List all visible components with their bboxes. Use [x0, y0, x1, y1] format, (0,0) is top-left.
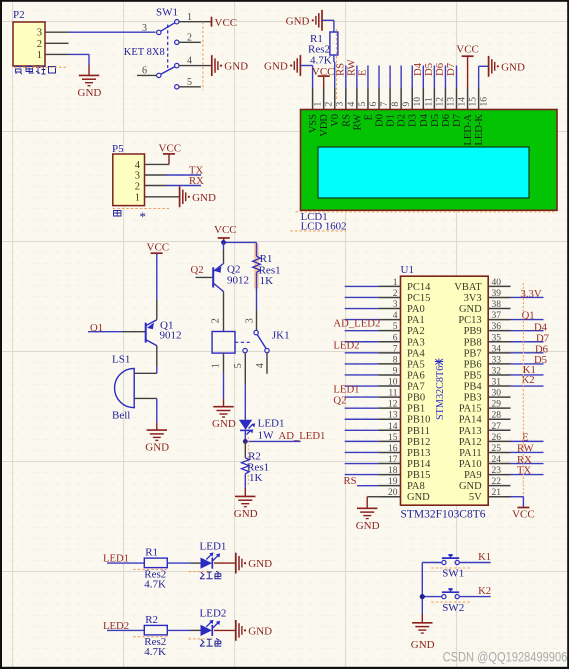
- SW1 pin 3 contact: [157, 30, 161, 34]
- wire LED2 to GND: [214, 629, 236, 631]
- svg-text:GND: GND: [145, 442, 169, 454]
- buzzer LS1 Bell symbol: [115, 368, 135, 407]
- wire GND to LCD pin1: [300, 65, 312, 67]
- svg-text:PB1: PB1: [407, 404, 425, 415]
- wire SW1 pin2 stub: [179, 41, 201, 43]
- svg-text:GND: GND: [212, 418, 236, 430]
- svg-text:PA4: PA4: [407, 348, 425, 359]
- svg-text:GND: GND: [501, 61, 525, 73]
- compile-error mark at R2 Res1: [247, 437, 249, 485]
- SW1 pin 2 contact: [175, 40, 179, 44]
- svg-text:12: 12: [388, 400, 398, 410]
- svg-text:PB12: PB12: [407, 437, 430, 448]
- svg-text:GND: GND: [411, 639, 435, 651]
- svg-text:KET 8X8: KET 8X8: [124, 47, 165, 58]
- svg-text:23: 23: [492, 466, 502, 476]
- svg-text:*: *: [140, 209, 147, 224]
- wire junction to R2: [244, 441, 246, 457]
- LED1 comment red color (Chinese): [200, 572, 213, 579]
- relay pin 5 line: [244, 353, 246, 385]
- svg-text:PB4: PB4: [464, 382, 483, 393]
- svg-text:PA15: PA15: [459, 404, 482, 415]
- wire P2 pin1 to GND: [69, 53, 90, 55]
- svg-text:4.7K: 4.7K: [310, 55, 332, 67]
- svg-text:4: 4: [255, 363, 266, 368]
- wires LCD data/control pins: [345, 66, 347, 89]
- svg-text:SW1: SW1: [442, 568, 464, 580]
- svg-text:5V: 5V: [469, 492, 482, 503]
- svg-text:3: 3: [393, 300, 398, 310]
- svg-text:9012: 9012: [160, 329, 182, 341]
- wire VCC to junction: [223, 238, 225, 242]
- svg-text:27: 27: [492, 422, 502, 432]
- svg-text:PA11: PA11: [459, 448, 482, 459]
- svg-text:GND: GND: [286, 15, 310, 27]
- svg-text:LED-K: LED-K: [474, 114, 485, 146]
- svg-text:38: 38: [492, 300, 502, 310]
- compile-error vertical mark near SW1: [202, 22, 204, 91]
- switch SW1 pushbutton: [442, 560, 446, 564]
- svg-text:PA9: PA9: [464, 470, 482, 481]
- svg-text:39: 39: [492, 289, 502, 299]
- svg-text:10: 10: [388, 378, 398, 388]
- LS1 pin 1: [134, 372, 157, 374]
- svg-text:36: 36: [492, 322, 502, 332]
- IC U1 STM32F103C8T6 body: [401, 276, 489, 505]
- svg-text:PA5: PA5: [407, 359, 425, 370]
- svg-text:D3: D3: [408, 114, 419, 127]
- LED LED1 symbol: [201, 558, 213, 569]
- svg-text:28: 28: [492, 411, 502, 421]
- svg-text:9: 9: [402, 102, 412, 107]
- svg-text:4.7K: 4.7K: [144, 579, 166, 591]
- compile-error underline below LCD designator: [291, 230, 347, 232]
- svg-text:SW2: SW2: [442, 602, 464, 614]
- LCD pin lines: [312, 88, 314, 110]
- svg-text:PB10: PB10: [407, 415, 430, 426]
- svg-text:16: 16: [480, 97, 490, 107]
- svg-text:LED-A: LED-A: [463, 114, 474, 146]
- wire SW1 pin4 to GND: [179, 65, 212, 67]
- svg-text:2: 2: [393, 289, 398, 299]
- svg-text:PA2: PA2: [407, 326, 425, 337]
- svg-text:PC13: PC13: [458, 315, 481, 326]
- svg-text:PA12: PA12: [459, 437, 482, 448]
- wire GND to R1: [322, 19, 334, 21]
- svg-text:3V3: 3V3: [464, 293, 482, 304]
- wire LED1 to GND: [214, 562, 236, 564]
- U1 right wires: [511, 296, 544, 298]
- svg-text:JK1: JK1: [272, 330, 290, 342]
- net label AD_LED1 and wire: [245, 440, 300, 442]
- wire SW1 pin1 to VCC: [179, 21, 212, 23]
- wire LED1 to R1: [107, 562, 144, 564]
- svg-text:AD_LED2: AD_LED2: [333, 317, 380, 329]
- svg-text:1K: 1K: [260, 275, 274, 287]
- svg-text:VCC: VCC: [147, 242, 170, 254]
- power VCC at SW1 pin1: [211, 17, 213, 27]
- relay JK1 coil pin 2: [223, 311, 225, 332]
- svg-text:VCC: VCC: [456, 43, 479, 55]
- svg-text:GND: GND: [234, 508, 258, 520]
- wire LS1 pin2 to GND: [156, 398, 158, 423]
- relay JK1 contact pin 3: [256, 310, 258, 330]
- wire base Q1: [88, 331, 122, 333]
- svg-text:VCC: VCC: [512, 509, 535, 521]
- SW1 gang dashed link: [167, 25, 169, 69]
- svg-text:2: 2: [135, 181, 140, 192]
- svg-text:PA8: PA8: [407, 481, 425, 492]
- svg-text:PB3: PB3: [464, 393, 482, 404]
- SW1 arm pin3-pin1: [161, 23, 175, 32]
- junction node VCC/Q2/R1: [224, 241, 257, 243]
- svg-text:PA1: PA1: [407, 315, 425, 326]
- svg-text:8: 8: [393, 355, 398, 365]
- wire U1 pin21 5V to VCC: [511, 496, 524, 498]
- SW1 pin 5 contact: [175, 85, 179, 89]
- svg-text:1: 1: [211, 363, 222, 368]
- svg-text:D0: D0: [375, 114, 386, 127]
- svg-text:35: 35: [492, 333, 502, 343]
- power VCC at P5 pin4: [163, 153, 175, 155]
- svg-text:3: 3: [244, 318, 255, 323]
- svg-text:GND: GND: [248, 625, 272, 637]
- svg-text:17: 17: [388, 455, 398, 465]
- svg-text:14: 14: [388, 422, 398, 432]
- svg-text:8: 8: [391, 102, 401, 107]
- svg-text:VCC: VCC: [159, 143, 182, 155]
- svg-text:RS: RS: [344, 475, 357, 487]
- resistor R1 Res2 4.7K body: [144, 558, 167, 568]
- relay pin 4 line: [266, 353, 268, 374]
- LED D-LED1 1W symbol: [239, 420, 252, 430]
- svg-text:PB14: PB14: [407, 459, 431, 470]
- svg-text:1W: 1W: [258, 430, 275, 442]
- ground for P2 pin 1: [79, 74, 99, 76]
- svg-text:30: 30: [492, 389, 502, 399]
- svg-text:PB0: PB0: [407, 393, 425, 404]
- resistor R2 Res1 1K zigzag: [242, 458, 250, 474]
- svg-text:D4: D4: [419, 113, 430, 127]
- svg-text:D2: D2: [397, 114, 408, 127]
- svg-text:GND: GND: [248, 558, 272, 570]
- transistor Q2 9012 PNP: [212, 267, 214, 287]
- svg-text:K2: K2: [478, 585, 491, 597]
- svg-text:10: 10: [413, 97, 423, 107]
- svg-text:4: 4: [347, 102, 357, 107]
- svg-text:15: 15: [388, 433, 398, 443]
- svg-text:SW1: SW1: [156, 7, 178, 19]
- svg-text:37: 37: [492, 311, 502, 321]
- U1 left pin lines and numbers: [378, 285, 400, 287]
- svg-text:15: 15: [469, 97, 479, 107]
- svg-text:PA10: PA10: [459, 459, 482, 470]
- LED1 emission arrows: [206, 555, 218, 561]
- svg-text:R1: R1: [145, 547, 158, 559]
- svg-text:PB6: PB6: [464, 359, 482, 370]
- compile-error vertical mark right of U1: [522, 283, 524, 508]
- P5 hidden comment (Chinese) with error underline: [114, 211, 122, 217]
- svg-text:U1: U1: [401, 264, 414, 276]
- svg-text:Bell: Bell: [112, 410, 130, 422]
- LS1 pin 2: [134, 397, 157, 399]
- svg-text:P5: P5: [112, 143, 124, 155]
- svg-text:LED2: LED2: [333, 339, 359, 351]
- svg-text:25: 25: [492, 444, 502, 454]
- svg-text:5: 5: [233, 363, 244, 368]
- svg-text:26: 26: [492, 433, 502, 443]
- wire SW1 pin6 stub: [137, 74, 157, 76]
- svg-text:PA0: PA0: [407, 304, 425, 315]
- svg-text:LED1: LED1: [258, 417, 285, 429]
- svg-text:RW: RW: [517, 443, 535, 455]
- svg-text:Q2: Q2: [191, 264, 204, 276]
- svg-text:PA7: PA7: [407, 382, 425, 393]
- svg-text:20: 20: [388, 488, 398, 498]
- svg-text:PC14: PC14: [407, 282, 431, 293]
- svg-text:5: 5: [358, 102, 368, 107]
- svg-text:21: 21: [492, 488, 502, 498]
- svg-text:1: 1: [314, 102, 324, 107]
- svg-text:16: 16: [388, 444, 398, 454]
- relay JK1 contact pin 4 circle: [265, 348, 269, 352]
- compile-error underline at R1: [133, 568, 168, 570]
- SW1 pin 4 contact: [175, 63, 179, 67]
- svg-text:1: 1: [135, 193, 140, 204]
- svg-text:3: 3: [336, 102, 346, 107]
- compile-error vertical mark at R1: [336, 29, 338, 100]
- resistor R1 Res2 4.7K body: [330, 32, 338, 55]
- svg-text:GND: GND: [459, 304, 482, 315]
- svg-text:TX: TX: [517, 465, 532, 477]
- svg-text:6: 6: [369, 102, 379, 107]
- svg-text:2: 2: [325, 102, 335, 107]
- svg-text:GND: GND: [224, 61, 248, 73]
- svg-text:LED1: LED1: [200, 540, 227, 552]
- compile-error underline at SW1: [431, 567, 470, 569]
- svg-text:9: 9: [393, 366, 398, 376]
- compile-error underline below LCD body: [296, 211, 558, 213]
- svg-text:GND: GND: [78, 87, 102, 99]
- svg-text:4: 4: [393, 311, 398, 321]
- svg-text:PA14: PA14: [459, 415, 483, 426]
- svg-text:32: 32: [492, 366, 502, 376]
- svg-text:STM32F103C8T6: STM32F103C8T6: [401, 509, 486, 521]
- svg-text:PB9: PB9: [464, 326, 482, 337]
- wire SW1 left: [422, 562, 442, 564]
- wire R2 to GND: [244, 474, 246, 488]
- svg-text:13: 13: [446, 97, 456, 107]
- ground at LCD pin1 VSS: [299, 55, 301, 76]
- svg-text:K1: K1: [478, 551, 491, 563]
- svg-text:GND: GND: [459, 481, 482, 492]
- wire R1 Res1 to relay pin3: [256, 272, 258, 310]
- wire U1 pin20 GND: [367, 496, 378, 498]
- power VCC under U1 pin21: [517, 507, 529, 509]
- resistor R2 Res2 4.7K body: [144, 625, 167, 635]
- ground at LED1: [235, 553, 237, 574]
- svg-text:1: 1: [37, 50, 42, 61]
- svg-text:22: 22: [492, 477, 502, 487]
- U1 left wires: [345, 285, 379, 287]
- svg-text:PA3: PA3: [407, 337, 425, 348]
- wire R1 to LED1: [167, 562, 190, 564]
- resistor R1 Res1 1K zigzag: [253, 256, 261, 272]
- LCD1 screen area: [318, 147, 529, 198]
- svg-text:P2: P2: [13, 9, 25, 21]
- SW1 pin 6 contact: [157, 73, 161, 77]
- svg-text:D7: D7: [452, 114, 463, 127]
- svg-text:4: 4: [135, 160, 141, 171]
- P5 pin 3 wire TX: [145, 174, 167, 176]
- svg-text:7: 7: [393, 344, 398, 354]
- svg-text:PB11: PB11: [407, 426, 430, 437]
- wire junction to R1 Res1: [256, 242, 258, 256]
- svg-text:7: 7: [380, 102, 390, 107]
- svg-text:13: 13: [388, 411, 398, 421]
- svg-text:CSDN @QQ1928499906: CSDN @QQ1928499906: [443, 649, 568, 665]
- svg-text:1: 1: [393, 278, 398, 288]
- wire SW1 right and net label K1: [459, 562, 490, 564]
- SW1 arm pin6-pin4: [161, 67, 175, 75]
- wire LED1 to junction: [244, 430, 246, 441]
- relay JK1 dashed link: [235, 341, 252, 343]
- svg-text:19: 19: [388, 477, 398, 487]
- wire P2 pin3 to SW1 pin3: [69, 31, 156, 33]
- ground above resistor R1: [321, 10, 323, 31]
- svg-text:12: 12: [435, 97, 445, 107]
- svg-text:D1: D1: [386, 114, 397, 127]
- SW1 pin 1 contact: [175, 20, 179, 24]
- svg-text:E: E: [356, 69, 368, 76]
- LCD1 display body: [301, 110, 558, 211]
- svg-text:GND: GND: [407, 492, 430, 503]
- svg-text:34: 34: [492, 344, 502, 354]
- svg-text:PB15: PB15: [407, 470, 430, 481]
- svg-text:29: 29: [492, 400, 502, 410]
- svg-text:PB5: PB5: [464, 370, 482, 381]
- svg-text:4: 4: [187, 56, 192, 67]
- svg-text:14: 14: [458, 97, 468, 107]
- svg-text:VDD: VDD: [319, 114, 330, 137]
- svg-text:4.7K: 4.7K: [144, 646, 166, 658]
- wire switches common to GND: [421, 563, 423, 615]
- wire LCD pin16 to GND: [478, 66, 480, 88]
- LED2 comment red color (Chinese): [200, 639, 213, 646]
- svg-text:31: 31: [492, 378, 502, 388]
- svg-text:D7: D7: [445, 62, 457, 76]
- svg-text:VSS: VSS: [308, 114, 319, 133]
- ground at SW1 pin4: [211, 55, 213, 76]
- svg-text:PC15: PC15: [407, 293, 430, 304]
- P5 pin 4 to VCC: [145, 163, 170, 165]
- wire junction down to Q2 emitter: [223, 242, 225, 250]
- P5 pin 1 wire to GND: [145, 196, 180, 198]
- compile-error underline under P2 label: [14, 66, 68, 68]
- svg-text:VCC: VCC: [214, 224, 237, 236]
- relay JK1 coil: [212, 332, 235, 354]
- svg-text:11: 11: [388, 389, 397, 399]
- svg-text:V0: V0: [330, 114, 341, 127]
- compile-error mark at R1 Res1: [254, 244, 258, 289]
- svg-text:PB8: PB8: [464, 337, 482, 348]
- svg-text:1K: 1K: [249, 472, 263, 484]
- wire relay coil pin1 to GND: [223, 373, 225, 399]
- svg-text:PB13: PB13: [407, 448, 430, 459]
- wire Q2 collector to relay coil pin2: [223, 292, 225, 312]
- ground at U1 pin20: [357, 507, 377, 509]
- svg-text:3: 3: [135, 171, 140, 182]
- svg-text:D6: D6: [441, 114, 452, 127]
- svg-text:PB7: PB7: [464, 348, 482, 359]
- wire relay pin5 to LED1: [244, 385, 246, 420]
- wire SW2 left: [422, 596, 442, 598]
- svg-text:LED2: LED2: [200, 608, 227, 620]
- label charging-port (Chinese) under P2: [14, 67, 23, 75]
- switch SW2 pushbutton: [442, 595, 446, 599]
- svg-text:R2: R2: [145, 614, 158, 626]
- relay JK1 contact pin 5 circle: [243, 348, 247, 352]
- svg-text:Q2: Q2: [333, 395, 346, 407]
- wire VCC to Q1 emitter: [156, 253, 158, 300]
- ground under bell: [147, 429, 167, 431]
- svg-text:18: 18: [388, 466, 398, 476]
- wire base Q2: [196, 276, 214, 278]
- wire R2 to LED2: [167, 629, 190, 631]
- ground under relay coil: [213, 406, 233, 408]
- svg-text:6: 6: [393, 333, 398, 343]
- wire SW1 pin5 stub: [179, 86, 201, 88]
- LED LED2 symbol: [201, 625, 213, 636]
- svg-text:PA6: PA6: [407, 370, 425, 381]
- svg-text:40: 40: [492, 278, 502, 288]
- svg-text:GND: GND: [192, 192, 216, 204]
- ground under R2: [235, 495, 255, 497]
- svg-text:E: E: [363, 114, 374, 120]
- svg-text:RW: RW: [352, 114, 363, 130]
- svg-text:PA13: PA13: [459, 426, 482, 437]
- ground for switches: [412, 622, 432, 624]
- svg-text:3: 3: [37, 28, 42, 39]
- svg-text:RS: RS: [341, 114, 352, 127]
- svg-text:D5: D5: [430, 114, 441, 127]
- relay JK1 contact arm: [257, 335, 266, 349]
- svg-text:AD_LED1: AD_LED1: [279, 430, 326, 442]
- svg-text:3: 3: [142, 23, 147, 34]
- svg-text:5: 5: [393, 322, 398, 332]
- svg-text:LS1: LS1: [112, 354, 130, 366]
- ground at LED2: [235, 620, 237, 641]
- compile-error underline at SW2: [431, 601, 470, 603]
- svg-text:STM32C8T6: STM32C8T6: [435, 366, 446, 420]
- svg-text:D5: D5: [534, 354, 547, 366]
- wire R1 to LCD pin3: [333, 55, 335, 62]
- U1 right pin lines and numbers: [488, 285, 510, 287]
- svg-text:2: 2: [37, 39, 42, 50]
- svg-text:9012: 9012: [227, 275, 249, 287]
- relay JK1 coil pin 1: [223, 353, 225, 373]
- P5 pin 2 wire RX: [145, 185, 167, 187]
- ground at LCD pin16 LED-K: [488, 56, 490, 77]
- svg-text:RX: RX: [189, 175, 204, 187]
- ground at P5 pin1: [179, 186, 181, 207]
- LED2 emission arrows: [206, 622, 218, 628]
- svg-text:2: 2: [211, 318, 222, 323]
- transistor Q1 9012 PNP: [145, 323, 147, 343]
- svg-text:33: 33: [492, 355, 502, 365]
- wire LED2 to R2: [107, 629, 144, 631]
- svg-text:GND: GND: [264, 61, 288, 73]
